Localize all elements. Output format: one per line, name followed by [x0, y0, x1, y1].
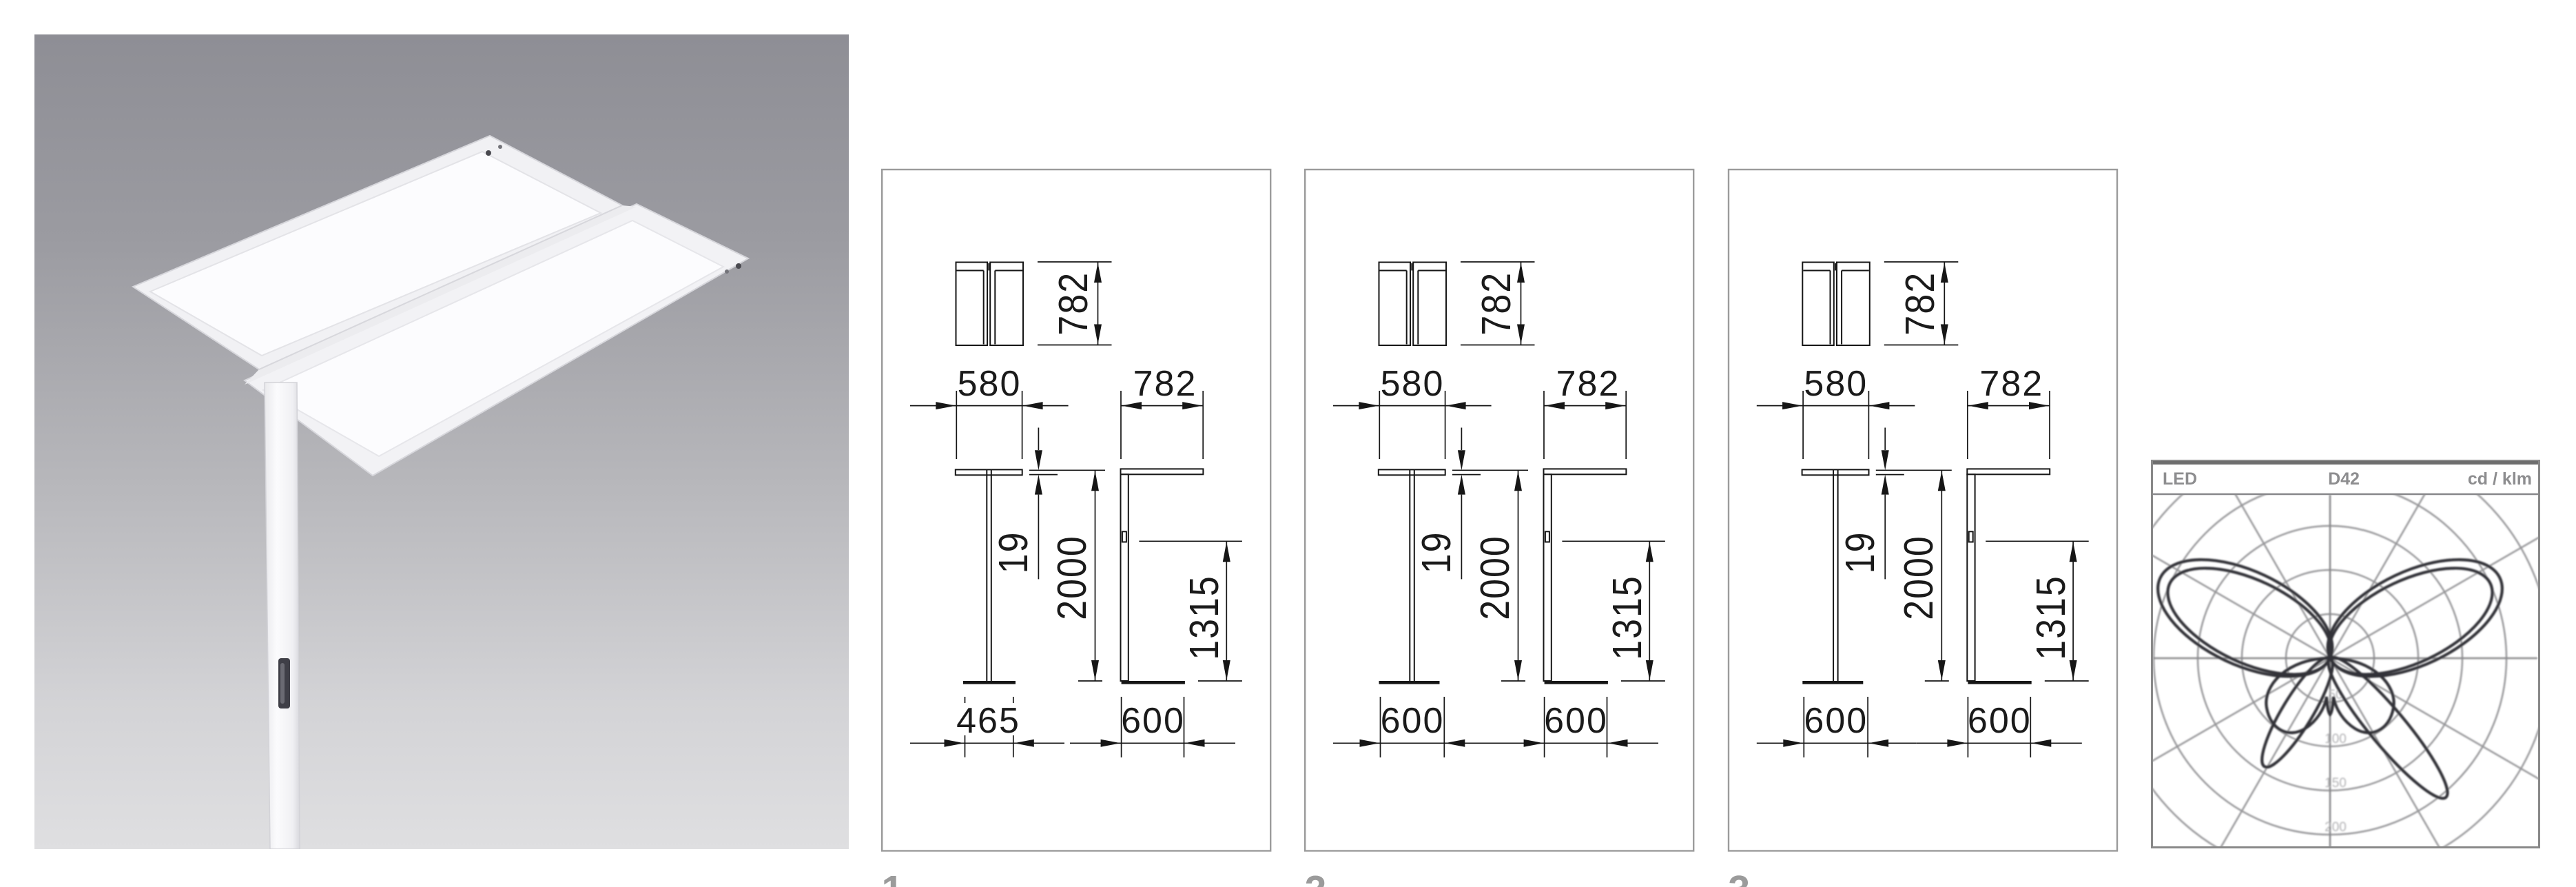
svg-text:D42: D42	[2328, 469, 2360, 489]
svg-text:150: 150	[2325, 776, 2347, 791]
svg-text:1: 1	[882, 868, 904, 887]
svg-text:3: 3	[1728, 868, 1750, 887]
svg-text:2: 2	[1305, 868, 1327, 887]
svg-text:200: 200	[2325, 820, 2347, 835]
svg-text:LED: LED	[2163, 469, 2197, 489]
svg-text:100: 100	[2325, 732, 2347, 746]
svg-text:cd / klm: cd / klm	[2468, 469, 2532, 489]
